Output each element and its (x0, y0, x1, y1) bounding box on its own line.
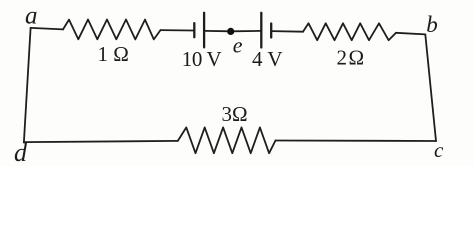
svg-text:c: c (434, 138, 444, 162)
svg-text:d: d (14, 138, 28, 166)
battery 4V short plate (270, 24, 272, 38)
battery 10V tall plate (203, 13, 205, 48)
svg-text:3Ω: 3Ω (222, 102, 248, 126)
wire R3 to corner c (276, 140, 437, 143)
svg-text:10 V: 10 V (182, 47, 222, 71)
wire battery 4V to R2 (272, 30, 303, 33)
wire node e to battery 4V (231, 30, 261, 32)
svg-text:a: a (25, 3, 38, 30)
svg-text:4 V: 4 V (252, 47, 283, 71)
wire R2 to corner b (396, 33, 425, 35)
wire bottom left d to R3 (24, 141, 178, 142)
svg-text:e: e (233, 32, 243, 57)
svg-text:1 Ω: 1 Ω (98, 42, 129, 66)
battery 4V tall plate (260, 13, 262, 48)
wire top left from a (31, 28, 63, 30)
wire left side a-d (24, 28, 31, 142)
resistor R1 1ohm (63, 20, 161, 40)
svg-text:b: b (426, 12, 438, 37)
resistor R3 3ohm (178, 127, 276, 153)
node e junction dot (227, 28, 234, 35)
wire R1 to battery 10V (161, 29, 194, 31)
svg-text:2Ω: 2Ω (337, 45, 366, 69)
resistor R2 2ohm (303, 23, 396, 40)
battery 10V short plate (193, 23, 195, 37)
wire right side b-c (425, 34, 436, 141)
wire battery 10V to node e (205, 30, 231, 32)
